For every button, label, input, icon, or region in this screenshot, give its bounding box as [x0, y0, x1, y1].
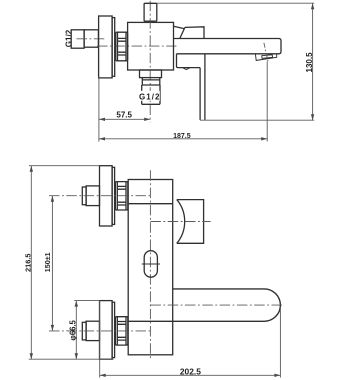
blade front edge [204, 54, 206, 120]
upper union cap [82, 187, 86, 205]
extension line bottom (130.5) [200, 119, 314, 121]
lens detail [183, 68, 190, 70]
extension line top (130.5) [157, 2, 314, 4]
svg-text:216.5: 216.5 [24, 254, 33, 273]
aerator axis [264, 43, 268, 62]
svg-text:187.5: 187.5 [173, 133, 191, 140]
extension line flange top (φ66.5) [74, 300, 99, 302]
valve body (view 1) [128, 22, 174, 70]
body seam upper [128, 203, 173, 205]
extension line from flange (view 1) [98, 76, 100, 142]
dimension 202.5 [100, 374, 281, 377]
extension line wall (202.5) [99, 301, 101, 378]
inlet union pipe [84, 30, 98, 47]
svg-text:G1/2: G1/2 [64, 29, 73, 47]
svg-text:150±1: 150±1 [43, 252, 52, 272]
lower mount centerline [49, 330, 150, 332]
aerator insert [262, 55, 273, 59]
extension line spout tip (202.5) [279, 307, 281, 377]
lower nut inner edges [117, 317, 126, 345]
lower nut [115, 317, 127, 345]
body vertical centerline (view 1) [149, 1, 151, 123]
dimension 216.5 [30, 166, 33, 360]
extension line from aerator [266, 62, 268, 142]
dimension 150±1 [51, 196, 54, 331]
lower union cap [82, 322, 86, 340]
bottom outlet collar [140, 70, 162, 78]
svg-text:57.5: 57.5 [116, 110, 132, 119]
top stem [144, 3, 157, 21]
svg-text:φ66.5: φ66.5 [69, 320, 78, 341]
oval cross tick [142, 263, 160, 265]
knob cylinder arc [177, 200, 185, 244]
extension line flange top (216.5) [29, 165, 100, 167]
upper flange side edge [112, 167, 115, 224]
lower flange side edge [112, 302, 115, 357]
upper nut facet lines a [117, 186, 126, 189]
nut inner edges [118, 32, 127, 60]
extension line flange bottom (216.5) [29, 358, 114, 360]
nut facet lines upper [118, 38, 127, 41]
knob centerline [150, 221, 210, 223]
upper mount centerline [49, 195, 150, 197]
spout arm (view 1) [174, 39, 282, 54]
inlet centerline [77, 38, 105, 40]
upper nut facet lines b [117, 202, 126, 205]
upper nut [115, 182, 127, 210]
lower nut facet lines b [117, 337, 126, 340]
dimension 57.5 [99, 118, 150, 121]
dimension 130.5 [311, 3, 314, 120]
dimension 187.5 [99, 137, 267, 140]
handle knob (view 1) [174, 26, 185, 29]
body vertical centerline (view 2) [149, 170, 151, 360]
dimension φ66.5 [75, 301, 78, 360]
svg-text:G1/2: G1/2 [139, 93, 161, 102]
lower nut facet lines a [117, 322, 126, 325]
lower wall flange [100, 301, 113, 360]
svg-text:202.5: 202.5 [180, 366, 201, 376]
flange side edge [112, 18, 115, 77]
aerator at spout tip [255, 54, 276, 61]
upper union pipe [86, 186, 99, 206]
body axis centerline (view 1) [97, 45, 177, 47]
stem feet [145, 21, 152, 22]
handle knob (view 2) [177, 200, 204, 244]
spout underside step [177, 54, 201, 68]
body (view 2) [128, 180, 173, 355]
spout centerline [150, 304, 282, 306]
label G1/2 (outlet, view 1) [138, 91, 160, 101]
upper nut inner edges [117, 182, 126, 210]
blade back edge [199, 68, 201, 120]
bottom outlet threaded pipe [142, 78, 160, 105]
upper wall flange [100, 166, 113, 226]
lower union pipe [86, 321, 99, 340]
inlet union cap [71, 30, 84, 48]
oval slot [144, 251, 157, 278]
wall flange (view 1) [99, 16, 113, 78]
svg-text:130.5: 130.5 [305, 52, 314, 73]
nut facet lines lower [118, 52, 127, 55]
spout (view 2) [128, 289, 280, 321]
connection nut (view 1) [116, 32, 128, 61]
